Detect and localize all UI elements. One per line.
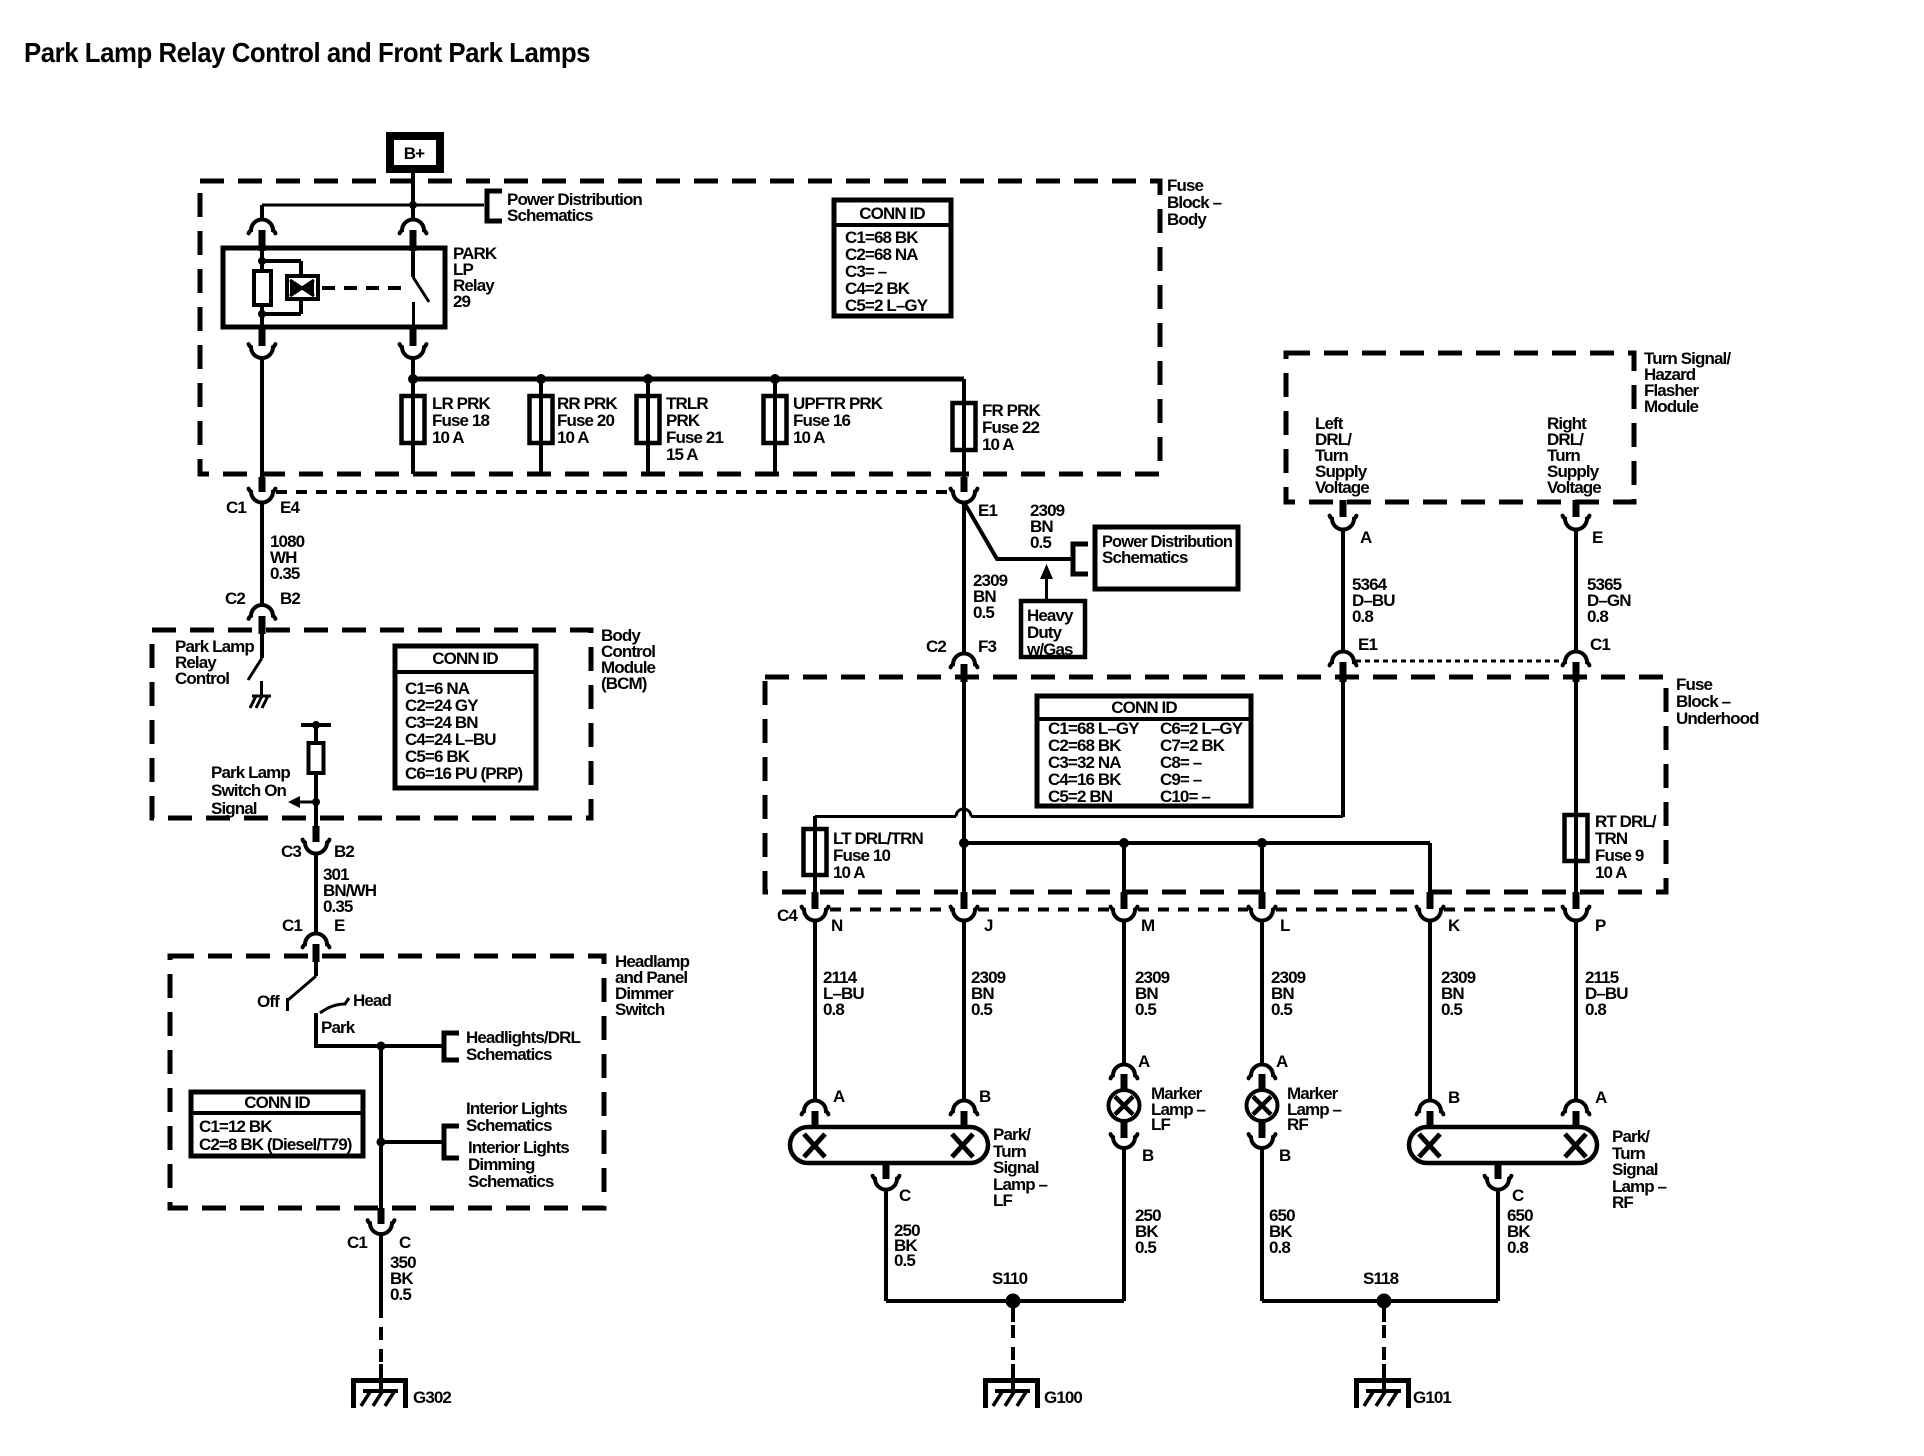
wire M drop <box>1122 843 1126 902</box>
wire L to marker RF <box>1260 921 1264 1064</box>
svg-text:C: C <box>899 1186 911 1205</box>
svg-text:M: M <box>1141 916 1155 935</box>
svg-text:Body: Body <box>1167 210 1207 229</box>
wire L drop <box>1260 843 1264 902</box>
label 2309 BN 0.5 (E1 branch) <box>1030 501 1065 552</box>
pin stub relay coil out <box>259 326 266 346</box>
off-page bracket Power Distribution <box>487 191 502 221</box>
wire 5365 D-GN 0.8 <box>1574 529 1578 651</box>
wire 2309 BN 0.5 drop <box>962 502 966 653</box>
pin stub marker RF B <box>1259 1120 1266 1138</box>
fuse TRLR PRK Fuse 21 <box>637 396 660 443</box>
connector interface line C1/E4 to E1 <box>276 490 950 494</box>
CONN ID table underhood <box>1037 696 1251 806</box>
svg-text:0.5: 0.5 <box>894 1251 915 1270</box>
wire 1080 WH 0.35 <box>260 502 264 605</box>
svg-text:E: E <box>1592 528 1603 547</box>
wire RT fuse feed <box>1574 681 1578 902</box>
label Park Lamp Relay Control <box>175 637 254 688</box>
pin stub lamp RF C <box>1495 1163 1502 1179</box>
switch relay control driver <box>248 658 262 680</box>
label Park/Turn Signal Lamp - RF <box>1612 1127 1667 1212</box>
svg-text:10 A: 10 A <box>833 863 865 882</box>
wire distribution bus 2 <box>964 841 1430 845</box>
wire P to lamp RF A <box>1574 921 1578 1100</box>
svg-text:C5=2 BN: C5=2 BN <box>1048 787 1113 806</box>
ground chassis (BCM driver) <box>250 696 271 708</box>
svg-text:0.8: 0.8 <box>1352 607 1373 626</box>
svg-text:G302: G302 <box>413 1388 451 1407</box>
svg-text:C1: C1 <box>282 916 302 935</box>
svg-text:A: A <box>833 1087 845 1106</box>
pin stub C1/E4 <box>259 477 266 492</box>
svg-text:E: E <box>334 916 345 935</box>
wire to interior bracket <box>381 1140 443 1144</box>
label Turn Signal/Hazard Flasher Module <box>1644 349 1731 416</box>
pin stub N <box>812 892 819 909</box>
svg-text:S110: S110 <box>992 1269 1028 1288</box>
svg-text:P: P <box>1595 916 1606 935</box>
svg-text:10 A: 10 A <box>1595 863 1627 882</box>
connector cup relay coil out <box>249 344 276 358</box>
CONN ID table BCM <box>395 646 536 788</box>
label 2309 BN 0.5 <box>1135 968 1170 1019</box>
wire 250 BK 0.5 (marker LF) <box>1122 1148 1126 1301</box>
turn signal hazard flasher module dashed box <box>1286 353 1634 502</box>
svg-text:RF: RF <box>1287 1115 1308 1134</box>
node bus at RR PRK <box>536 374 546 384</box>
pin stub C1 underhood <box>1573 662 1580 682</box>
svg-text:CONN ID: CONN ID <box>432 649 498 668</box>
node pullup <box>312 721 320 729</box>
connector interface line E1-C1 <box>1356 660 1563 663</box>
note arrow Heavy Duty w/Gas <box>1040 564 1053 602</box>
svg-text:0.8: 0.8 <box>1507 1238 1528 1257</box>
svg-text:Schematics: Schematics <box>466 1045 552 1064</box>
svg-text:C: C <box>399 1233 411 1252</box>
connector arch lamp LF A <box>802 1101 829 1115</box>
pin stub relay switch <box>410 230 417 251</box>
svg-text:0.5: 0.5 <box>973 603 994 622</box>
svg-text:0.8: 0.8 <box>1585 1000 1606 1019</box>
pin stub P <box>1573 892 1580 909</box>
off-page bracket Interior Lights <box>444 1126 459 1158</box>
ground G101 <box>1357 1364 1409 1408</box>
relay solenoid X-box <box>287 276 318 299</box>
wire ground bus S110 <box>886 1299 1124 1303</box>
wire 5364 D-BU 0.8 <box>1341 529 1345 651</box>
svg-text:B: B <box>1279 1146 1291 1165</box>
wire E1 to PD bracket <box>965 504 1072 559</box>
label PARK LP Relay 29 <box>453 244 498 311</box>
svg-text:Schematics: Schematics <box>466 1116 552 1135</box>
wire relay coil internal <box>262 251 301 326</box>
svg-text:L: L <box>1280 916 1290 935</box>
svg-text:0.5: 0.5 <box>1030 533 1051 552</box>
fuse block body dashed box <box>200 181 1160 474</box>
connector cup K <box>1417 907 1444 921</box>
wire into switch <box>314 960 318 976</box>
connector arch C2/B2 <box>249 605 276 619</box>
wire power distribution feed <box>262 204 484 207</box>
svg-text:C2=8 BK (Diesel/T79): C2=8 BK (Diesel/T79) <box>199 1135 352 1154</box>
svg-text:Voltage: Voltage <box>1547 478 1601 497</box>
box Heavy Duty w/Gas <box>1021 601 1085 659</box>
svg-text:C1: C1 <box>1590 635 1610 654</box>
label Interior Lights Schematics <box>466 1099 567 1135</box>
svg-text:Schematics: Schematics <box>468 1172 554 1191</box>
wire E1 feed down to LT branch <box>1341 680 1345 817</box>
pin stub lamp LF B <box>961 1111 968 1129</box>
svg-text:Park Lamp: Park Lamp <box>211 763 290 782</box>
connector cup relay switch out <box>400 344 427 358</box>
label 2114 L-BU 0.8 <box>823 968 864 1019</box>
pin stub relay coil <box>259 230 266 251</box>
wire relay out to C1/E4 <box>260 358 264 479</box>
wire LR PRK drop <box>411 379 415 474</box>
lamp Marker LF <box>1109 1090 1140 1121</box>
connector cup E1 body <box>951 489 978 503</box>
wire 650 BK 0.8 (RF C) <box>1496 1189 1500 1301</box>
switch blade Off <box>288 976 317 1011</box>
node headlights branch <box>377 1042 386 1051</box>
svg-text:B: B <box>1142 1146 1154 1165</box>
svg-text:Schematics: Schematics <box>1102 548 1188 567</box>
connector arch relay pin left <box>249 220 276 234</box>
wire dashed to G100 <box>1011 1308 1015 1322</box>
svg-text:0.5: 0.5 <box>971 1000 992 1019</box>
wire 350 BK 0.5 <box>379 1234 383 1305</box>
label 2309 BN 0.5 <box>1441 968 1476 1019</box>
pin stub L <box>1259 892 1266 909</box>
svg-text:B: B <box>1448 1088 1460 1107</box>
svg-text:15 A: 15 A <box>666 445 698 464</box>
CONN ID table fuse block body <box>834 200 951 316</box>
headlamp switch dashed box <box>170 956 604 1208</box>
svg-text:B+: B+ <box>404 144 425 163</box>
connector arch lamp RF B <box>1417 1101 1444 1115</box>
svg-text:Schematics: Schematics <box>507 206 593 225</box>
wire N to lamp A <box>813 921 817 1100</box>
relay switch fixed contact <box>412 302 415 326</box>
svg-text:C3: C3 <box>281 842 301 861</box>
svg-text:K: K <box>1448 916 1461 935</box>
svg-text:(BCM): (BCM) <box>601 674 647 693</box>
wire switch signal <box>314 772 318 828</box>
wire ground bus S118 <box>1262 1299 1498 1303</box>
svg-text:0.35: 0.35 <box>270 564 300 583</box>
wire Park contact <box>316 1013 443 1046</box>
svg-text:C2: C2 <box>926 637 946 656</box>
connector arch E1 underhood <box>1330 652 1357 666</box>
off-page bracket Power Distribution 2 <box>1073 544 1088 574</box>
node interior branch <box>377 1138 386 1147</box>
pin stub lamp RF B <box>1427 1111 1434 1129</box>
svg-text:C6=16 PU (PRP): C6=16 PU (PRP) <box>405 764 523 783</box>
svg-text:S118: S118 <box>1363 1269 1399 1288</box>
pin stub K <box>1427 892 1434 909</box>
pin stub E module <box>1573 500 1580 517</box>
svg-text:0.5: 0.5 <box>390 1285 411 1304</box>
wire interior lights branch <box>379 1046 383 1210</box>
pin stub lamp LF C <box>883 1163 890 1179</box>
svg-text:w/Gas: w/Gas <box>1026 640 1073 659</box>
svg-text:10 A: 10 A <box>793 428 825 447</box>
wire dashed to G101 <box>1382 1308 1386 1322</box>
svg-text:Signal: Signal <box>211 799 257 818</box>
node S110 <box>1006 1294 1021 1309</box>
svg-text:Off: Off <box>257 992 280 1011</box>
pin stub C2/F3 <box>961 664 968 682</box>
connector cup marker RF B <box>1249 1134 1276 1148</box>
label Marker Lamp - RF <box>1287 1084 1342 1134</box>
svg-text:10 A: 10 A <box>432 428 464 447</box>
lamp Marker RF <box>1247 1090 1278 1121</box>
connector cup E module <box>1563 516 1590 530</box>
connector cup C3/B2 <box>303 840 330 854</box>
svg-text:C1: C1 <box>226 498 246 517</box>
svg-text:Control: Control <box>175 669 229 688</box>
label Headlamp and Panel Dimmer Switch <box>615 952 690 1019</box>
wire relay switch to fuse bus <box>411 358 415 379</box>
label Right DRL/Turn Supply Voltage <box>1547 414 1601 497</box>
svg-text:0.35: 0.35 <box>323 897 353 916</box>
fuse block underhood dashed box <box>765 677 1666 892</box>
relay PARK LP Relay 29 box <box>223 248 445 327</box>
svg-text:E1: E1 <box>978 501 997 520</box>
pin stub C3/B2 <box>313 826 320 842</box>
node bus at LR PRK <box>408 374 418 384</box>
connector cup A module <box>1330 516 1357 530</box>
label Fuse Block Body <box>1167 176 1222 229</box>
pin stub lamp RF A <box>1573 1111 1580 1129</box>
svg-text:LF: LF <box>993 1191 1012 1210</box>
label 2115 D-BU 0.8 <box>1585 968 1628 1019</box>
pin stub M <box>1121 892 1128 909</box>
box Power Distribution Schematics <box>1095 527 1238 589</box>
svg-text:C: C <box>1512 1186 1524 1205</box>
pin stub lamp LF A <box>812 1111 819 1129</box>
label Headlights/DRL Schematics <box>466 1028 580 1064</box>
fuse LR PRK Fuse 18 <box>402 396 425 443</box>
ground G100 <box>986 1364 1038 1408</box>
svg-text:0.5: 0.5 <box>1135 1238 1156 1257</box>
svg-text:G100: G100 <box>1044 1388 1082 1407</box>
node bus at UPFTR PRK <box>770 374 780 384</box>
label Park Lamp Switch On Signal <box>211 763 290 818</box>
svg-text:0.8: 0.8 <box>823 1000 844 1019</box>
fuse FR PRK Fuse 22 <box>953 403 976 450</box>
label Power Distribution Schematics <box>507 190 642 225</box>
label 2309 BN 0.5 <box>1271 968 1306 1019</box>
wire K to lamp RF B <box>1428 921 1432 1100</box>
wire LT fuse feed horizontal with hop <box>815 809 1343 817</box>
connector cup P <box>1563 907 1590 921</box>
svg-text:C2: C2 <box>225 589 245 608</box>
svg-text:C1: C1 <box>347 1233 367 1252</box>
connector arch relay pin right <box>400 220 427 234</box>
connector cup lamp LF C <box>873 1176 900 1190</box>
svg-text:0.5: 0.5 <box>1271 1000 1292 1019</box>
node J <box>959 838 969 848</box>
svg-text:LF: LF <box>1151 1115 1170 1134</box>
dashed actuator link <box>322 286 406 290</box>
off-page bracket Headlights/DRL <box>444 1033 459 1060</box>
connector arch C2/F3 <box>951 654 978 668</box>
wire 650 BK 0.8 (marker RF) <box>1260 1148 1264 1301</box>
svg-text:A: A <box>1360 528 1372 547</box>
wire dashed to G302 <box>379 1305 383 1374</box>
svg-text:0.5: 0.5 <box>1135 1000 1156 1019</box>
svg-text:10 A: 10 A <box>557 428 589 447</box>
node S118 <box>1377 1294 1392 1309</box>
pin stub E1 body <box>961 477 968 492</box>
wire 301 BN/WH 0.35 <box>314 853 318 933</box>
node M <box>1119 838 1129 848</box>
relay coil resistor <box>254 271 271 305</box>
park lamp switch pullup bar <box>301 723 331 727</box>
svg-text:J: J <box>984 916 993 935</box>
pin stub C1/C <box>378 1208 385 1224</box>
resistor park lamp switch <box>309 743 324 773</box>
svg-text:E1: E1 <box>1358 635 1377 654</box>
connector arch C1 underhood <box>1563 652 1590 666</box>
svg-text:C4: C4 <box>777 906 798 925</box>
pin stub C1/E <box>313 944 320 962</box>
pin stub A module <box>1340 500 1347 517</box>
svg-text:0.8: 0.8 <box>1269 1238 1290 1257</box>
node coil top <box>258 257 266 265</box>
label Left DRL/Turn Supply Voltage <box>1315 414 1369 497</box>
connector cup N <box>802 907 829 921</box>
connector cup L <box>1249 907 1276 921</box>
connector arch C1/E <box>303 934 330 948</box>
connector arch marker RF A <box>1249 1065 1276 1079</box>
wire K drop <box>1428 843 1432 902</box>
node coil bottom <box>258 310 266 318</box>
wire B+ to relay 30 terminal <box>411 173 415 219</box>
wire RR PRK drop <box>539 379 543 474</box>
wire pullup <box>314 725 318 744</box>
label Body Control Module (BCM) <box>601 626 656 693</box>
fuse RR PRK Fuse 20 <box>530 396 553 443</box>
node junction B+/PD <box>409 201 417 209</box>
pin stub C2/B2 <box>259 616 266 634</box>
wire J to lamp B <box>962 921 966 1100</box>
CONN ID table headlamp switch <box>191 1092 363 1156</box>
svg-text:B2: B2 <box>280 589 300 608</box>
wire FR PRK drop <box>962 379 966 479</box>
pin stub marker LF B <box>1121 1120 1128 1138</box>
svg-text:F3: F3 <box>978 637 996 656</box>
pin stub relay switch out <box>410 326 417 346</box>
svg-text:C10= –: C10= – <box>1160 787 1210 806</box>
ground G302 <box>354 1364 406 1408</box>
svg-text:RF: RF <box>1612 1193 1633 1212</box>
svg-text:0.8: 0.8 <box>1587 607 1608 626</box>
svg-text:C5=2 L–GY: C5=2 L–GY <box>845 296 929 315</box>
svg-text:N: N <box>831 916 843 935</box>
svg-text:A: A <box>1276 1052 1288 1071</box>
connector cup lamp RF C <box>1485 1176 1512 1190</box>
connector arch lamp RF A <box>1563 1101 1590 1115</box>
label Park/Turn Signal Lamp - LF <box>993 1125 1048 1210</box>
signal arrow <box>288 796 320 808</box>
BCM dashed box <box>152 630 591 818</box>
pin stub marker LF A <box>1121 1074 1128 1091</box>
relay switch arm <box>411 251 415 277</box>
lamp Park/Turn Signal LF <box>790 1127 988 1163</box>
svg-text:CONN ID: CONN ID <box>1111 698 1177 717</box>
connector cup M <box>1111 907 1138 921</box>
svg-text:Park Lamp Relay Control and Fr: Park Lamp Relay Control and Front Park L… <box>24 37 590 68</box>
wire 250 BK 0.5 (LF C) <box>884 1189 888 1301</box>
connector arch lamp LF B <box>951 1101 978 1115</box>
svg-text:Switch: Switch <box>615 1000 665 1019</box>
svg-text:A: A <box>1138 1052 1150 1071</box>
pin stub E1 underhood <box>1340 662 1347 682</box>
connector interface line C4 N..P <box>830 908 951 912</box>
wire UPFTR PRK drop <box>773 379 777 474</box>
svg-text:29: 29 <box>453 292 471 311</box>
svg-text:10 A: 10 A <box>982 435 1014 454</box>
wire LT fuse drop <box>813 816 817 902</box>
svg-text:G101: G101 <box>1413 1388 1451 1407</box>
svg-text:CONN ID: CONN ID <box>244 1093 310 1112</box>
label 2309 BN 0.5 <box>971 968 1006 1019</box>
svg-text:C1=12 BK: C1=12 BK <box>199 1117 273 1136</box>
svg-text:Voltage: Voltage <box>1315 478 1369 497</box>
switch Head contact <box>320 998 349 1013</box>
wire M to marker LF <box>1122 921 1126 1064</box>
battery feed B+ <box>390 136 440 169</box>
fuse bus wire <box>413 377 964 382</box>
svg-text:CONN ID: CONN ID <box>859 204 925 223</box>
connector cup C1/E4 <box>249 489 276 503</box>
svg-text:B: B <box>979 1087 991 1106</box>
pin stub J <box>961 892 968 909</box>
svg-text:B2: B2 <box>334 842 354 861</box>
svg-text:A: A <box>1595 1088 1607 1107</box>
label Interior Lights Dimming Schematics <box>468 1138 569 1191</box>
connector cup marker LF B <box>1111 1134 1138 1148</box>
node L <box>1257 838 1267 848</box>
svg-text:Switch On: Switch On <box>211 781 287 800</box>
connector cup C1/C <box>368 1220 395 1234</box>
wire relay control driver <box>260 634 264 658</box>
wire J feed vertical <box>962 677 966 902</box>
svg-text:Head: Head <box>353 991 391 1010</box>
pin stub marker RF A <box>1259 1074 1266 1091</box>
label Fuse Block Underhood <box>1676 675 1759 728</box>
svg-text:0.5: 0.5 <box>1441 1000 1462 1019</box>
fuse LT DRL/TRN Fuse 10 <box>804 829 827 875</box>
fuse RT DRL/TRN Fuse 9 <box>1565 815 1588 861</box>
connector cup J <box>951 907 978 921</box>
label Marker Lamp - LF <box>1151 1084 1206 1134</box>
svg-text:E4: E4 <box>280 498 300 517</box>
svg-text:Module: Module <box>1644 397 1699 416</box>
wire TRLR PRK drop <box>646 379 650 474</box>
wire coil feed drop <box>260 205 264 219</box>
svg-text:Underhood: Underhood <box>1676 709 1759 728</box>
svg-text:Park: Park <box>321 1018 356 1037</box>
lamp Park/Turn Signal RF <box>1409 1127 1597 1163</box>
fuse UPFTR PRK Fuse 16 <box>764 396 787 443</box>
connector arch marker LF A <box>1111 1065 1138 1079</box>
node bus at TRLR PRK <box>643 374 653 384</box>
